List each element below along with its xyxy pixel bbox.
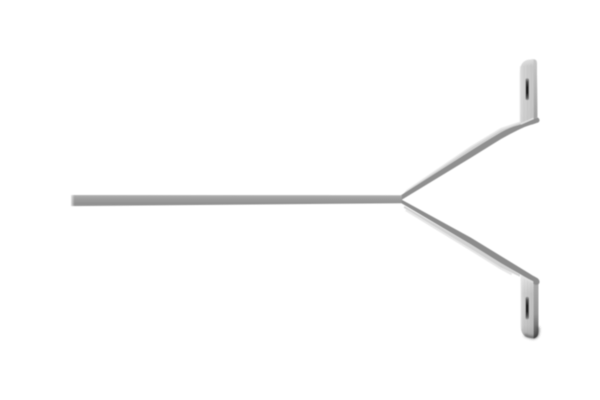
- bottom tab slot: [526, 297, 529, 320]
- bottom bend fillet light line: [521, 276, 533, 282]
- bottom tab side thickness: [534, 282, 539, 339]
- bottom tab left bend highlight: [521, 277, 522, 329]
- lower arm grey strip: [402, 200, 540, 285]
- bottom tab brushed lines: [525, 279, 532, 335]
- top bend fillet light line: [521, 118, 534, 124]
- upper arm grey strip: [401, 118, 540, 200]
- top tab left bend highlight: [520, 66, 521, 123]
- lower arm light bottom face (inner layer): [404, 206, 520, 277]
- lower arm light bottom face (outer bright layer): [405, 210, 512, 276]
- bar left soft edge: [67, 192, 77, 209]
- horizontal bar: [71, 195, 402, 206]
- bottom tab dark bottom rim: [525, 327, 539, 338]
- top tab side thickness: [534, 60, 538, 119]
- upper arm light top face (inner layer): [403, 122, 522, 194]
- bottom mounting tab plate: [521, 275, 539, 339]
- top tab brushed lines: [524, 64, 531, 122]
- upper arm light top face (outer bright layer): [405, 122, 520, 192]
- top tab slot: [526, 78, 529, 100]
- top mounting tab plate: [520, 59, 538, 125]
